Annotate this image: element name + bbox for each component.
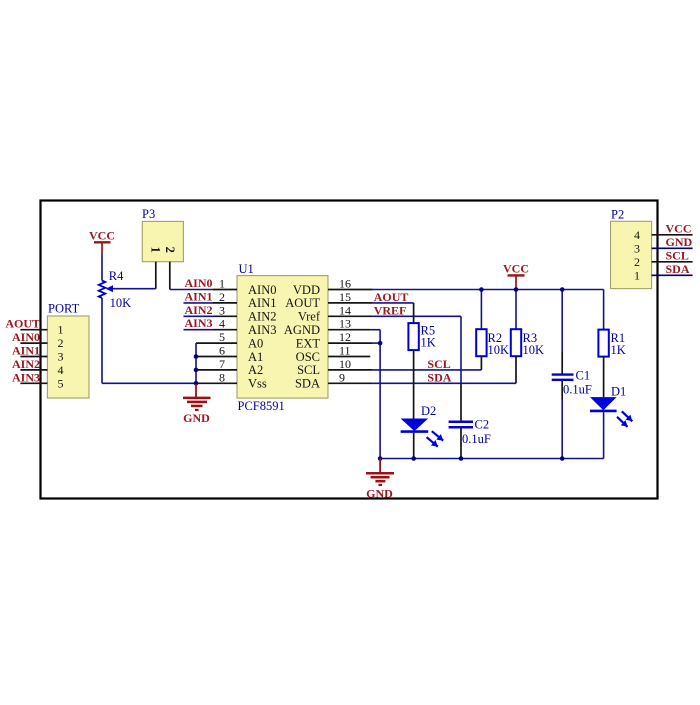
svg-text:AOUT: AOUT [374, 290, 409, 304]
svg-text:1: 1 [634, 268, 640, 282]
svg-text:AIN2: AIN2 [185, 303, 213, 317]
svg-text:8: 8 [219, 370, 225, 384]
svg-text:0.1uF: 0.1uF [462, 432, 491, 446]
svg-text:AIN3: AIN3 [185, 316, 213, 330]
svg-text:3: 3 [58, 350, 64, 364]
svg-text:10K: 10K [110, 296, 132, 310]
svg-text:AIN1: AIN1 [185, 289, 213, 303]
svg-text:D1: D1 [611, 385, 626, 399]
svg-text:2: 2 [634, 255, 640, 269]
svg-text:AOUT: AOUT [5, 317, 40, 331]
svg-text:AIN2: AIN2 [12, 357, 40, 371]
svg-text:VCC: VCC [503, 262, 529, 276]
svg-text:AIN0: AIN0 [12, 330, 40, 344]
svg-text:5: 5 [58, 376, 64, 390]
svg-text:6: 6 [219, 344, 225, 358]
svg-text:AIN0: AIN0 [185, 276, 213, 290]
svg-text:AIN3: AIN3 [12, 370, 40, 384]
svg-text:D2: D2 [421, 404, 436, 418]
svg-text:PORT: PORT [48, 302, 80, 316]
svg-text:VREF: VREF [374, 303, 407, 317]
svg-text:13: 13 [339, 317, 351, 331]
svg-text:SDA: SDA [666, 262, 690, 276]
svg-text:1K: 1K [611, 343, 626, 357]
svg-text:7: 7 [219, 357, 225, 371]
svg-text:P3: P3 [142, 207, 155, 221]
svg-text:2: 2 [219, 290, 225, 304]
svg-text:SCL: SCL [666, 248, 689, 262]
svg-text:10: 10 [339, 357, 351, 371]
svg-text:A1: A1 [248, 350, 263, 364]
svg-text:EXT: EXT [296, 336, 321, 350]
svg-text:U1: U1 [239, 262, 254, 276]
svg-text:VCC: VCC [666, 221, 692, 235]
svg-text:AOUT: AOUT [285, 296, 320, 310]
svg-text:C2: C2 [475, 418, 490, 432]
svg-text:9: 9 [339, 370, 345, 384]
svg-text:2: 2 [163, 247, 177, 253]
svg-text:16: 16 [339, 277, 351, 291]
svg-text:OSC: OSC [296, 350, 320, 364]
svg-text:P2: P2 [611, 208, 624, 222]
svg-text:VDD: VDD [293, 283, 320, 297]
svg-text:C1: C1 [576, 369, 591, 383]
svg-text:GND: GND [666, 235, 693, 249]
svg-text:AGND: AGND [284, 323, 320, 337]
svg-text:1: 1 [219, 277, 225, 291]
svg-text:AIN1: AIN1 [12, 344, 40, 358]
svg-text:SDA: SDA [427, 370, 451, 384]
svg-text:Vss: Vss [248, 377, 267, 391]
svg-text:4: 4 [219, 317, 225, 331]
svg-text:4: 4 [634, 228, 640, 242]
svg-text:4: 4 [58, 363, 64, 377]
svg-text:PCF8591: PCF8591 [238, 399, 285, 413]
svg-text:A0: A0 [248, 336, 263, 350]
svg-text:2: 2 [58, 336, 64, 350]
svg-text:5: 5 [219, 330, 225, 344]
svg-text:SCL: SCL [427, 357, 450, 371]
svg-text:11: 11 [339, 344, 351, 358]
svg-text:AIN3: AIN3 [248, 323, 276, 337]
svg-text:10K: 10K [488, 343, 510, 357]
svg-text:AIN2: AIN2 [248, 310, 276, 324]
svg-text:R4: R4 [109, 269, 124, 283]
svg-text:15: 15 [339, 290, 351, 304]
svg-text:3: 3 [634, 241, 640, 255]
svg-text:14: 14 [339, 303, 351, 317]
svg-text:SCL: SCL [297, 363, 320, 377]
svg-text:1: 1 [58, 323, 64, 337]
svg-text:1: 1 [149, 247, 163, 253]
svg-text:1K: 1K [421, 336, 436, 350]
svg-text:0.1uF: 0.1uF [563, 383, 592, 397]
svg-text:AIN1: AIN1 [248, 296, 276, 310]
svg-text:AIN0: AIN0 [248, 283, 276, 297]
svg-text:12: 12 [339, 330, 351, 344]
svg-text:3: 3 [219, 303, 225, 317]
svg-text:GND: GND [183, 411, 210, 425]
svg-text:SDA: SDA [295, 377, 320, 391]
svg-text:GND: GND [366, 487, 393, 501]
svg-text:Vref: Vref [298, 310, 321, 324]
svg-text:A2: A2 [248, 363, 263, 377]
svg-text:10K: 10K [523, 343, 545, 357]
svg-text:VCC: VCC [89, 229, 115, 243]
